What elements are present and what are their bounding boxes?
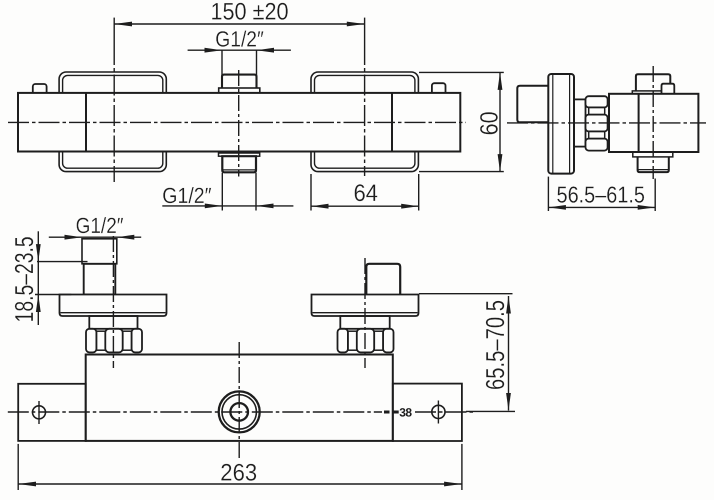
right inlet port (bottom view): [366, 264, 400, 295]
centerline: big circle axis: [238, 342, 240, 458]
wall plate: [548, 74, 574, 174]
bottom center port chamfer line: [223, 169, 256, 171]
dimension 150 ±20: [114, 23, 364, 25]
svg-text:G1/2″: G1/2″: [76, 213, 124, 238]
centerline: right escutcheon axis: [364, 18, 366, 44]
button on bar right end: [432, 83, 446, 96]
right hex nut band 1: [348, 331, 357, 350]
mixer body (side view): [609, 94, 698, 152]
centerline: left stack axis: [112, 236, 114, 368]
valve body (bottom view): [86, 355, 393, 441]
button (side view): [662, 84, 675, 94]
button on bar left end: [33, 84, 47, 96]
centerline: right stack axis: [364, 258, 366, 368]
dimension 64 (right escutcheon width): [311, 174, 419, 211]
right flange (bottom view): [312, 295, 419, 317]
left flange chamfer line: [61, 312, 166, 314]
svg-text:G1/2″: G1/2″: [162, 183, 211, 208]
dimension 56.5-61.5: [548, 177, 655, 211]
bottom center port body: [222, 156, 256, 172]
top center port flange: [219, 88, 260, 93]
dimension 65.5-70.5: [419, 294, 515, 412]
left hex nut pill 1: [86, 329, 96, 353]
left bracket hole: [33, 406, 46, 419]
bottom center port flange: [219, 153, 260, 156]
right neck: [340, 316, 389, 329]
right hole vertical crosshair: [437, 401, 439, 424]
wall plate inner edges: [552, 74, 554, 173]
left hex nut band 2: [123, 331, 132, 350]
neck between plate and nut: [574, 99, 586, 146]
left hex nut pill 2: [105, 329, 122, 353]
dimension G1/2 (top port): [188, 50, 291, 75]
escutcheon left (inner edge): [63, 75, 163, 168]
cartridge cap outer circle: [219, 391, 260, 432]
right hex nut band 2: [374, 331, 383, 350]
svg-text:64: 64: [354, 180, 379, 207]
left inlet nipple (bottom view): [82, 239, 117, 264]
left mounting bracket: [18, 384, 86, 441]
escutcheon right (outer): [311, 72, 418, 172]
left neck: [89, 316, 137, 329]
top center port nipple: [222, 75, 257, 89]
centerline: bottom view horizontal axis: [8, 411, 382, 413]
hex nut (side view) pill middle: [586, 115, 608, 132]
svg-text:60: 60: [475, 111, 503, 135]
right flange chamfer line: [313, 312, 418, 314]
svg-text:263: 263: [220, 459, 257, 486]
left hex nut pill 3: [132, 329, 142, 353]
hex nut (side view) pill bottom: [586, 139, 608, 151]
centerline: left escutcheon axis: [113, 18, 115, 44]
hex nut inset band 1: [589, 107, 605, 114]
hex nut inset band 2: [589, 131, 605, 138]
top port flange (side view): [632, 91, 673, 94]
svg-text:56.5–61.5: 56.5–61.5: [557, 181, 646, 207]
cartridge cap middle circle: [222, 395, 256, 429]
dimension 263: [18, 444, 462, 490]
escutcheon right (inner edge): [315, 75, 415, 168]
dimension G1/2 (bottom center port): [162, 173, 293, 211]
centerline: bar horizontal axis: [8, 121, 466, 123]
right hex nut pill 3: [383, 329, 393, 353]
bottom port (side view): [638, 157, 669, 172]
left flange (bottom view): [60, 295, 167, 317]
bold tick segments before 38: [384, 411, 390, 414]
hex nut (side view) pill top: [586, 96, 608, 107]
right mounting bracket: [393, 384, 462, 441]
svg-text:G1/2″: G1/2″: [215, 27, 264, 52]
body divider (side view) x=638.6: [638, 94, 640, 152]
bar divider left x=86: [85, 93, 87, 152]
escutcheon left (outer): [59, 72, 166, 172]
svg-text:150 ±20: 150 ±20: [211, 0, 289, 25]
left hex nut band 1: [96, 331, 105, 350]
right hex nut pill 2: [357, 329, 374, 353]
bar divider right x=392: [391, 93, 393, 152]
centerline: side view port vertical axis: [652, 66, 654, 179]
right hex nut pill 1: [338, 329, 348, 353]
handle knob: [517, 86, 548, 123]
svg-text:65.5–70.5: 65.5–70.5: [480, 300, 510, 390]
right bracket hole: [432, 405, 445, 418]
svg-text:38: 38: [399, 406, 412, 420]
left inlet shoulder: [84, 264, 116, 295]
bottom port chamfer line (side view): [638, 169, 668, 171]
centerline: center port axis: [238, 70, 240, 177]
svg-text:18.5–23.5: 18.5–23.5: [9, 236, 39, 322]
cartridge cap inner circle: [230, 403, 248, 421]
dimension 18.5-23.5: [35, 231, 88, 325]
top port (side view): [636, 74, 670, 91]
centerline: side view horizontal axis: [507, 122, 706, 124]
dimension 60 (height, right side): [419, 72, 504, 171]
left hole vertical crosshair: [38, 401, 40, 424]
dimension G1/2 (bottom view left nipple): [49, 236, 141, 238]
bottom port flange (side view): [633, 152, 673, 157]
mixer bar body: [18, 93, 460, 152]
